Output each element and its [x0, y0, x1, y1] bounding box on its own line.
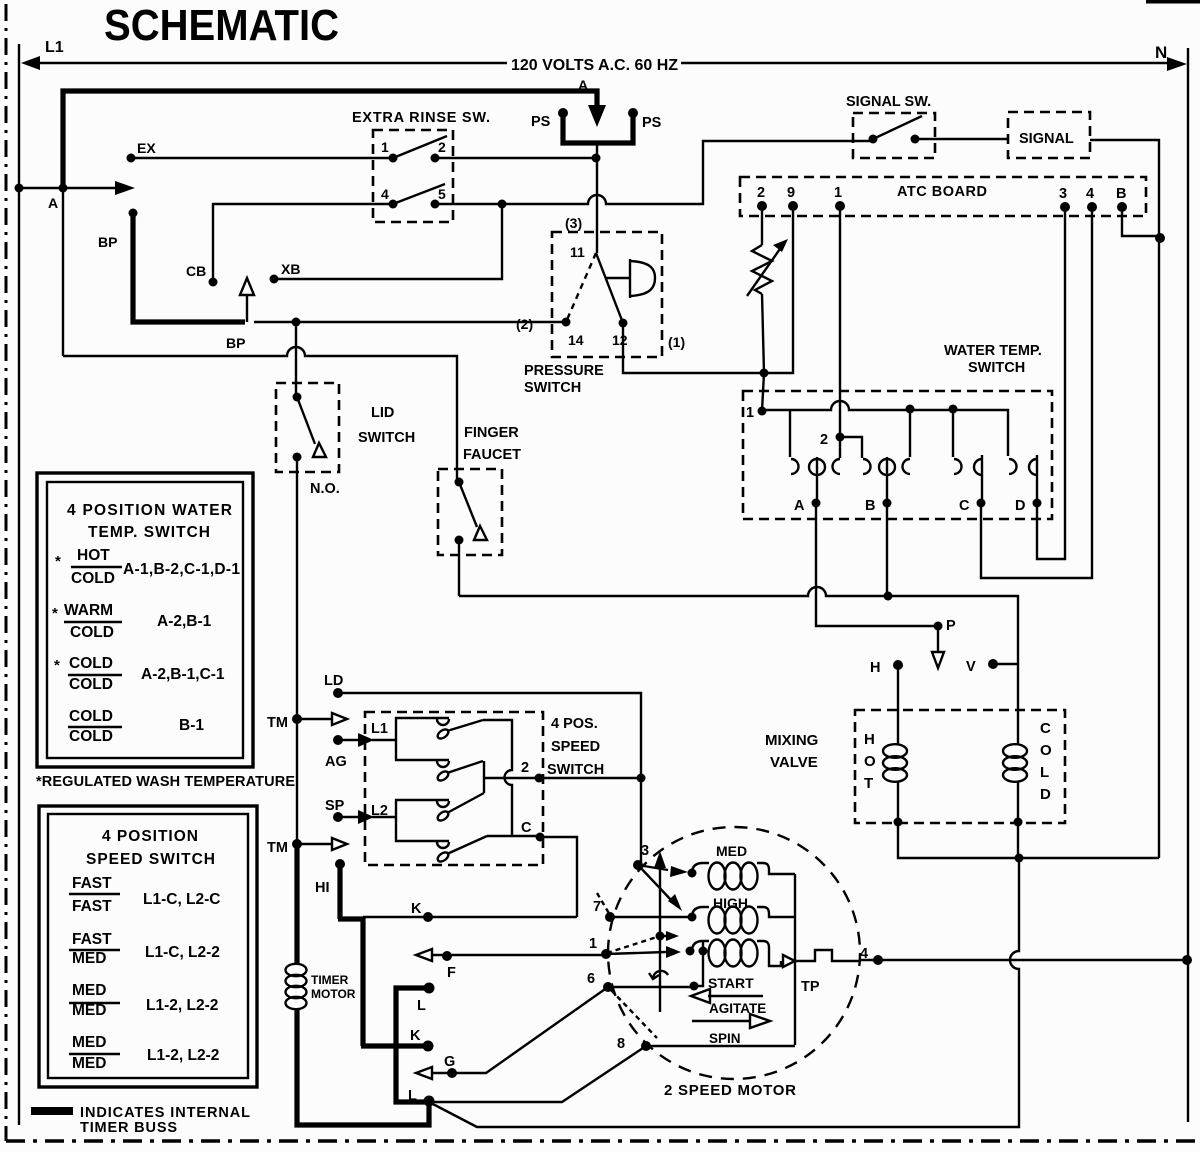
- svg-text:3: 3: [641, 843, 649, 859]
- svg-text:H: H: [870, 660, 880, 676]
- wire ATC pin B jog: [1122, 207, 1160, 236]
- svg-text:COLD: COLD: [69, 708, 113, 725]
- wire pin12 down to ATC 9: [623, 206, 793, 373]
- wire lid switch down to TM chain: [296, 457, 298, 844]
- svg-text:MED: MED: [716, 843, 747, 859]
- svg-text:PS: PS: [642, 115, 662, 131]
- wire pole A to P: [816, 503, 938, 626]
- wire C out down to K row: [540, 837, 577, 917]
- svg-text:P: P: [946, 618, 956, 634]
- wire 2 out to LD node: [539, 777, 641, 779]
- junction dot buss/A: [59, 184, 68, 193]
- svg-text:N: N: [1155, 43, 1167, 62]
- svg-text:L: L: [1040, 764, 1049, 781]
- svg-text:SWITCH: SWITCH: [524, 380, 581, 396]
- wire K row: [363, 916, 577, 918]
- border bottom dash-dot: [6, 1139, 1200, 1143]
- svg-text:*REGULATED WASH TEMPERATURE: *REGULATED WASH TEMPERATURE: [36, 774, 295, 790]
- svg-text:*: *: [52, 605, 58, 622]
- svg-text:1: 1: [834, 185, 842, 201]
- svg-text:L1-C, L2-C: L1-C, L2-C: [143, 891, 221, 908]
- wire XB to riser: [274, 204, 502, 279]
- svg-text:4: 4: [1086, 186, 1094, 202]
- wire pole D to ATC 3: [1037, 207, 1065, 559]
- wire EX to extra rinse pin1: [131, 157, 393, 159]
- wire left loop vertical: [62, 190, 64, 356]
- svg-text:HI: HI: [315, 880, 330, 896]
- BP buss bracket: [133, 214, 245, 322]
- svg-text:H: H: [864, 731, 875, 748]
- buss L bracket: [396, 988, 429, 1102]
- svg-text:TIMER BUSS: TIMER BUSS: [80, 1120, 177, 1136]
- wire row1 with hop over pin1 drop: [762, 401, 1008, 456]
- wire lid switch riser: [295, 322, 297, 397]
- common 2 node: [483, 761, 485, 793]
- svg-text:LID: LID: [371, 405, 394, 421]
- svg-text:6: 6: [587, 971, 595, 987]
- svg-text:1: 1: [381, 139, 389, 155]
- motor 2 SPEED MOTOR circle: [608, 827, 860, 1079]
- svg-text:COLD: COLD: [70, 624, 114, 641]
- svg-text:XB: XB: [281, 261, 300, 277]
- drops from row1: [789, 410, 791, 457]
- wire pin2 to PS junction: [435, 157, 595, 159]
- svg-text:7: 7: [593, 899, 601, 915]
- svg-text:INDICATES INTERNAL: INDICATES INTERNAL: [80, 1105, 250, 1121]
- wire resistor node to pin 1: [762, 373, 764, 411]
- arrow SPIN: [692, 1020, 750, 1022]
- svg-text:12: 12: [612, 332, 628, 348]
- wire LD to speed switch 2 node: [338, 693, 641, 865]
- svg-text:(3): (3): [565, 215, 582, 231]
- svg-text:COLD: COLD: [71, 570, 115, 587]
- svg-text:2: 2: [757, 185, 765, 201]
- svg-text:HIGH: HIGH: [713, 895, 748, 911]
- terminal EX: [127, 154, 136, 163]
- wire ATC pin2 to resistor: [761, 206, 763, 245]
- coil TIMER MOTOR: [286, 964, 307, 976]
- svg-text:COLD: COLD: [69, 676, 113, 693]
- svg-text:L: L: [417, 998, 426, 1014]
- svg-text:D: D: [1040, 786, 1051, 803]
- svg-text:SIGNAL: SIGNAL: [1019, 131, 1074, 147]
- legend INDICATES INTERNAL TIMER BUSS: [31, 1107, 73, 1115]
- diaphragm symbol: [629, 259, 631, 298]
- resistor variable (water level): [752, 245, 772, 294]
- wire C row: [487, 835, 540, 837]
- arrowhead buss A down: [588, 105, 606, 127]
- BP up arrow open: [246, 295, 248, 322]
- svg-text:L1: L1: [45, 39, 64, 56]
- svg-text:TEMP. SWITCH: TEMP. SWITCH: [88, 524, 210, 541]
- svg-text:11: 11: [570, 244, 585, 260]
- svg-text:D: D: [1015, 498, 1025, 514]
- arrow 3 to HIGH: [638, 865, 672, 901]
- wire 7 row: [610, 916, 692, 918]
- wire pin5 row with hop to signal sw riser: [435, 141, 873, 204]
- svg-text:8: 8: [617, 1036, 625, 1052]
- svg-text:4 POS.: 4 POS.: [551, 716, 598, 732]
- wire ATC pin1 down: [839, 206, 841, 437]
- wire CB riser to pin4: [213, 204, 393, 282]
- border left dash-dot: [5, 4, 8, 1141]
- L2 bracket: [396, 800, 449, 841]
- wire node A arrow: [19, 187, 122, 189]
- svg-text:L1-2, L2-2: L1-2, L2-2: [147, 1047, 219, 1064]
- svg-text:VALVE: VALVE: [770, 754, 818, 771]
- svg-text:HOT: HOT: [77, 547, 110, 564]
- junction dot lid switch riser: [292, 318, 301, 327]
- svg-text:K: K: [411, 901, 422, 917]
- wire SIGNAL to right bus: [1090, 140, 1159, 858]
- wire finger faucet to main horizontal: [458, 540, 460, 596]
- buss HI to K: [338, 864, 428, 1046]
- svg-text:BP: BP: [226, 335, 245, 351]
- wire BP row to pressure switch 14: [254, 321, 566, 323]
- fixed contacts: [791, 459, 799, 474]
- svg-text:COLD: COLD: [69, 655, 113, 672]
- blade pins 4-5: [393, 184, 445, 204]
- svg-text:WARM: WARM: [64, 602, 113, 619]
- dashed actuator links: [597, 893, 610, 915]
- svg-text:A-2,B-1: A-2,B-1: [157, 613, 212, 630]
- svg-text:A-2,B-1,C-1: A-2,B-1,C-1: [141, 666, 225, 683]
- L1 bracket: [396, 718, 449, 760]
- svg-text:5: 5: [438, 186, 446, 202]
- svg-text:*: *: [54, 657, 60, 674]
- svg-text:2 SPEED MOTOR: 2 SPEED MOTOR: [664, 1082, 796, 1099]
- svg-text:SWITCH: SWITCH: [968, 360, 1025, 376]
- table 4 POSITION WATER TEMP. SWITCH: [37, 473, 253, 767]
- svg-text:CB: CB: [186, 263, 206, 279]
- PS buss bracket: [563, 114, 633, 143]
- timer motor buss: [294, 844, 299, 965]
- svg-text:FINGER: FINGER: [464, 425, 519, 441]
- svg-text:COLD: COLD: [69, 728, 113, 745]
- svg-text:TM: TM: [267, 840, 288, 856]
- switch LID SWITCH: [276, 383, 339, 472]
- blade dashed to pin 14: [566, 253, 596, 322]
- wire L1 bus vertical: [18, 44, 20, 1125]
- svg-text:L: L: [408, 1088, 417, 1104]
- wire pole C to ATC 4: [981, 207, 1092, 578]
- svg-text:T: T: [864, 775, 873, 792]
- svg-text:SP: SP: [325, 798, 345, 814]
- svg-text:START: START: [708, 975, 754, 991]
- svg-text:SPEED: SPEED: [551, 739, 600, 755]
- wire left loop bottom with hop over lid switch wire: [63, 347, 457, 482]
- arrowhead right at N: [1167, 57, 1187, 71]
- svg-text:1: 1: [746, 405, 754, 421]
- svg-text:MED: MED: [72, 982, 106, 999]
- svg-text:A: A: [48, 195, 58, 211]
- svg-text:MED: MED: [72, 1055, 106, 1072]
- svg-text:4: 4: [381, 186, 389, 202]
- svg-text:EX: EX: [137, 140, 156, 156]
- svg-text:FAST: FAST: [72, 931, 112, 948]
- svg-text:L1-C, L2-2: L1-C, L2-2: [145, 944, 220, 961]
- svg-text:SWITCH: SWITCH: [358, 430, 415, 446]
- svg-text:L1-2, L2-2: L1-2, L2-2: [146, 997, 218, 1014]
- wire 4 to N bus: [860, 959, 1186, 961]
- svg-text:PRESSURE: PRESSURE: [524, 363, 604, 379]
- svg-text:*: *: [55, 553, 61, 570]
- coil HOT: [897, 713, 899, 822]
- svg-text:2: 2: [438, 139, 446, 155]
- wire main horizontal with hop over pole A: [459, 587, 1018, 713]
- scan artifact top right: [1146, 0, 1200, 4]
- svg-text:C: C: [959, 498, 970, 514]
- svg-text:C: C: [521, 820, 532, 836]
- svg-text:SPIN: SPIN: [709, 1031, 741, 1046]
- svg-text:BP: BP: [98, 234, 117, 250]
- governor arrow vertical: [659, 862, 661, 1012]
- svg-text:ATC BOARD: ATC BOARD: [897, 184, 987, 200]
- svg-text:(2): (2): [516, 316, 533, 332]
- svg-text:120 VOLTS A.C. 60 HZ: 120 VOLTS A.C. 60 HZ: [511, 57, 678, 74]
- timer motor buss lower + bottom hook: [297, 1010, 429, 1125]
- svg-text:L1: L1: [371, 721, 388, 737]
- switch 4 POS. SPEED SWITCH: [365, 712, 543, 865]
- svg-text:B-1: B-1: [179, 717, 204, 734]
- svg-text:MED: MED: [72, 1034, 106, 1051]
- arrow AGITATE: [708, 995, 763, 997]
- svg-text:FAST: FAST: [72, 875, 112, 892]
- svg-text:PS: PS: [531, 114, 551, 130]
- svg-text:V: V: [966, 659, 976, 675]
- svg-text:2: 2: [820, 432, 828, 448]
- svg-text:MOTOR: MOTOR: [311, 987, 356, 1001]
- svg-text:EXTRA RINSE SW.: EXTRA RINSE SW.: [352, 110, 490, 126]
- svg-text:B: B: [1116, 186, 1126, 202]
- svg-text:WATER TEMP.: WATER TEMP.: [944, 343, 1042, 359]
- svg-text:SCHEMATIC: SCHEMATIC: [104, 1, 339, 50]
- svg-text:2: 2: [521, 760, 529, 776]
- wire PS to EX junction: [596, 145, 598, 232]
- svg-text:SWITCH: SWITCH: [547, 762, 604, 778]
- wire L lower row to 8: [429, 1046, 646, 1102]
- svg-text:MED: MED: [72, 1002, 106, 1019]
- wire pole B down: [886, 503, 888, 596]
- governor curl: [653, 971, 668, 979]
- svg-text:N.O.: N.O.: [310, 481, 340, 497]
- svg-text:3: 3: [1059, 186, 1067, 202]
- terminal CB: [209, 278, 218, 287]
- svg-text:A-1,B-2,C-1,D-1: A-1,B-2,C-1,D-1: [123, 561, 240, 578]
- wire 120V line right: [681, 62, 1170, 64]
- svg-text:K: K: [410, 1028, 421, 1044]
- junction dot L1/A: [15, 184, 24, 193]
- wire HOT bottom to COLD bus: [898, 822, 1019, 858]
- contacts and blades: [437, 719, 449, 725]
- svg-text:SIGNAL SW.: SIGNAL SW.: [846, 94, 931, 110]
- svg-text:AG: AG: [325, 754, 347, 770]
- wire cold bus down with hop over motor line, to bottom run: [429, 822, 1019, 1127]
- svg-text:9: 9: [787, 185, 795, 201]
- arrow 3 to MED: [638, 865, 668, 870]
- wire right bus to mixing valve bottom: [1019, 857, 1159, 859]
- svg-text:AGITATE: AGITATE: [709, 1001, 766, 1016]
- svg-text:B: B: [865, 498, 875, 514]
- svg-text:O: O: [1040, 742, 1052, 759]
- wire 120V line left: [36, 62, 507, 64]
- wire 8 row (SPIN): [646, 1045, 795, 1047]
- blade pins 1-2: [393, 136, 447, 158]
- blade solid to pin 12: [596, 253, 623, 323]
- svg-text:14: 14: [568, 332, 584, 348]
- coil COLD: [1017, 713, 1019, 822]
- wire 1 row arrow: [606, 952, 666, 954]
- svg-text:G: G: [444, 1054, 455, 1070]
- wire resistor to node: [762, 294, 764, 373]
- switch PRESSURE SWITCH box: [552, 232, 662, 357]
- timer buss top run: [63, 91, 597, 190]
- wire 6 row: [608, 986, 694, 988]
- svg-text:TM: TM: [267, 715, 288, 731]
- svg-text:TP: TP: [801, 979, 820, 995]
- arrowhead left at L1: [21, 56, 40, 70]
- svg-text:FAUCET: FAUCET: [463, 447, 521, 463]
- svg-text:MIXING: MIXING: [765, 732, 818, 749]
- junction dot XB riser on pin5 row: [498, 200, 507, 209]
- svg-text:O: O: [864, 753, 876, 770]
- svg-text:MED: MED: [72, 950, 106, 967]
- svg-text:C: C: [1040, 720, 1051, 737]
- svg-text:F: F: [447, 965, 456, 981]
- svg-text:A: A: [794, 498, 805, 514]
- svg-text:4 POSITION WATER: 4 POSITION WATER: [67, 502, 232, 519]
- table 4 POSITION SPEED SWITCH: [39, 806, 257, 1087]
- component SIGNAL: [1008, 112, 1090, 158]
- wire signal sw to SIGNAL: [915, 138, 1008, 140]
- svg-text:L2: L2: [371, 803, 388, 819]
- moving contacts A-D: [809, 459, 825, 475]
- svg-text:SPEED SWITCH: SPEED SWITCH: [86, 851, 215, 868]
- terminal XB: [270, 275, 279, 284]
- thermal protector TP: [783, 955, 795, 967]
- svg-text:(1): (1): [668, 334, 685, 350]
- common to C with hop over 2 wire: [483, 720, 512, 836]
- svg-text:A: A: [578, 77, 588, 93]
- wire N bus vertical: [1187, 48, 1189, 1122]
- component ATC BOARD: [740, 177, 1146, 216]
- svg-text:LD: LD: [324, 673, 343, 689]
- svg-text:FAST: FAST: [72, 898, 112, 915]
- svg-text:4 POSITION: 4 POSITION: [102, 828, 198, 845]
- svg-text:1: 1: [589, 936, 597, 952]
- pressure switch common: [596, 232, 598, 253]
- svg-text:TIMER: TIMER: [311, 973, 349, 987]
